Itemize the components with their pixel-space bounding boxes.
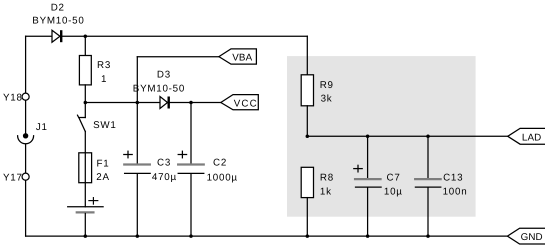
capacitor C13: [415, 179, 441, 187]
junction R8/gnd: [306, 234, 310, 238]
wire C7 to ground: [367, 188, 369, 237]
svg-text:VCC: VCC: [234, 98, 258, 109]
svg-text:LAD: LAD: [522, 132, 541, 143]
wire C3 to ground: [136, 174, 138, 236]
svg-text:C3: C3: [157, 157, 171, 168]
flag LAD: [508, 128, 545, 144]
wire C2 to ground: [190, 174, 192, 236]
wire J1 to Y17: [25, 144, 27, 173]
wire C13 branch: [427, 136, 429, 178]
junction R9/LAD: [306, 135, 310, 139]
junction D3/C2 node: [189, 101, 193, 105]
capacitor C3: [124, 165, 150, 174]
wire LAD rail: [307, 135, 507, 137]
wire ground rail: [26, 235, 508, 237]
svg-text:1: 1: [101, 74, 107, 85]
diode D3: [160, 97, 170, 109]
svg-text:2A: 2A: [96, 172, 109, 183]
svg-text:1000µ: 1000µ: [207, 172, 238, 183]
svg-text:R3: R3: [97, 60, 111, 71]
wire down to C2: [190, 103, 192, 164]
junction C3/gnd: [136, 234, 140, 238]
battery BT plus plate: [68, 206, 103, 208]
svg-text:R8: R8: [320, 173, 334, 184]
wire R8 to ground: [306, 198, 308, 237]
svg-text:100n: 100n: [443, 186, 468, 197]
svg-text:C7: C7: [387, 173, 401, 184]
junction C7/gnd: [366, 234, 370, 238]
wire down to C3: [136, 103, 138, 164]
flag VBA: [219, 49, 257, 64]
svg-text:10µ: 10µ: [384, 186, 403, 197]
svg-text:GND: GND: [521, 232, 543, 243]
wire mid horizontal to D3: [85, 102, 160, 104]
svg-text:BYM10-50: BYM10-50: [133, 83, 185, 94]
C7 plus sign: [354, 165, 362, 172]
svg-text:1k: 1k: [320, 186, 332, 197]
svg-text:F1: F1: [97, 158, 110, 169]
diode D2: [52, 30, 62, 42]
resistor R9: [301, 75, 313, 106]
junction C7/LAD: [366, 135, 370, 139]
wire Y17 to ground rail: [25, 180, 27, 236]
junction battery/gnd: [84, 234, 88, 238]
wire VBA branch vertical: [136, 57, 138, 103]
fuse F1: [79, 153, 92, 183]
wire VBA horizontal: [137, 56, 219, 58]
wire C7 branch: [367, 136, 369, 178]
wire R9 to LAD rail: [306, 106, 308, 137]
wire R3 branch top: [84, 36, 86, 55]
wire battery to ground rail: [84, 214, 86, 237]
wire Y18 to J1: [25, 100, 27, 133]
switch SW1: [78, 103, 86, 153]
svg-text:SW1: SW1: [93, 120, 116, 131]
battery minus plate: [77, 211, 94, 213]
svg-text:D3: D3: [157, 70, 171, 81]
pin Y17: [22, 173, 29, 180]
connector J1: [18, 133, 34, 144]
svg-text:C2: C2: [213, 157, 227, 168]
pin Y18: [22, 93, 29, 100]
shaded region: [287, 56, 476, 217]
wire C13 to ground: [427, 188, 429, 237]
C3 plus sign: [124, 151, 132, 158]
svg-text:VBA: VBA: [232, 53, 252, 64]
capacitor C7: [355, 179, 381, 187]
resistor R3: [79, 56, 91, 85]
wire top rail: [26, 35, 52, 37]
wire fuse to battery: [84, 183, 86, 207]
flag GND: [507, 228, 545, 244]
svg-text:Y18: Y18: [3, 93, 23, 104]
svg-text:Y17: Y17: [3, 173, 23, 184]
svg-text:D2: D2: [51, 2, 65, 13]
junction VBA/D3 node: [136, 101, 140, 105]
svg-text:J1: J1: [36, 122, 48, 133]
capacitor C2: [178, 165, 204, 174]
wire R3 to node: [84, 85, 86, 103]
svg-text:470µ: 470µ: [152, 172, 177, 183]
flag VCC: [221, 95, 258, 110]
junction node below R3: [84, 101, 88, 105]
svg-text:C13: C13: [443, 173, 463, 184]
wire left rail upper: [25, 36, 27, 93]
wire R9 branch top: [306, 36, 308, 75]
battery plus sign: [89, 198, 98, 205]
junction C2/gnd: [189, 234, 193, 238]
C2 plus sign: [178, 151, 186, 158]
junction at D2 cathode: [84, 34, 88, 38]
svg-text:R9: R9: [320, 80, 334, 91]
junction C13/LAD: [426, 135, 430, 139]
junction C13/gnd: [426, 234, 430, 238]
svg-text:BYM10-50: BYM10-50: [32, 16, 84, 27]
wire D3 to VCC: [170, 102, 221, 104]
svg-text:3k: 3k: [321, 94, 333, 105]
resistor R8: [301, 167, 313, 197]
